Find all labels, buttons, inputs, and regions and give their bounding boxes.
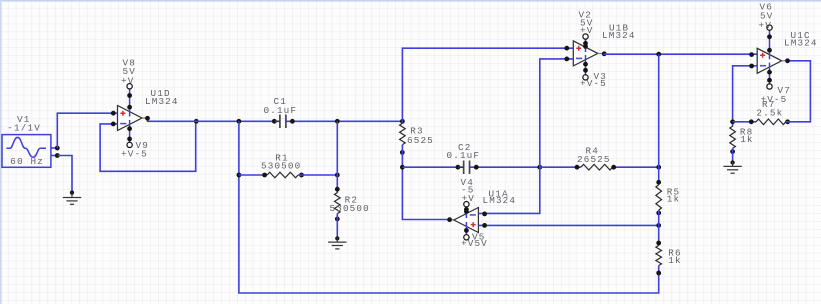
svg-text:530500: 530500 (261, 161, 301, 172)
label -5 (V4) (461, 184, 474, 195)
svg-text:LM324: LM324 (602, 30, 636, 41)
wire C1 wire down to R2 (336, 121, 338, 193)
node R6 bottom (656, 271, 661, 276)
node U1A pin 11 (464, 228, 469, 233)
node U1D pin 1 (145, 116, 150, 121)
power terminal +V (V2) (583, 34, 588, 39)
op-amp U1B (573, 41, 598, 66)
voltage source V1 (-1/1V 60 Hz sine source) (2, 135, 51, 168)
wire U1D feedback loop (100, 121, 196, 171)
svg-text:2.5k: 2.5k (756, 108, 783, 119)
value label 1k (R8) (740, 134, 753, 145)
value label 0.1uF (C2) (447, 150, 481, 161)
label 5V (V6) (760, 11, 773, 22)
node ground junction under R2 (335, 236, 339, 240)
label +V (V4) (462, 193, 475, 204)
node U1C pin 1 (785, 58, 790, 63)
node U1A pin 6 (482, 212, 487, 217)
wire U1B non-inverting input long run (402, 48, 573, 121)
node ground junction under V1 (70, 191, 74, 195)
U1B minus input mark (576, 57, 582, 59)
svg-text:+V: +V (580, 25, 593, 36)
node U1A pin 7 output (447, 217, 452, 222)
svg-text:0.1uF: 0.1uF (447, 150, 481, 161)
node U1D pin 11a (127, 126, 132, 131)
wire U1A V- pin (465, 222, 467, 234)
value label 6525 (R3) (407, 135, 434, 146)
U1A minus input mark (470, 214, 476, 216)
node R2 bottom lead (335, 217, 340, 222)
node U1C pin 11b (767, 78, 772, 83)
label V1 (17, 114, 30, 125)
label +V-5 (V7) (761, 94, 788, 105)
wire R5 to R6 (658, 210, 660, 245)
node C1 left lead (272, 119, 277, 124)
wire V1 minus lead (51, 155, 57, 157)
label V4 (461, 177, 474, 188)
value label 530500 (R1) (261, 161, 301, 172)
label R3 (410, 126, 423, 137)
wire U1A inverting input from C2 junction (478, 167, 539, 213)
label V6 (760, 2, 773, 13)
node junction U1B output / R4 branch (656, 52, 661, 57)
node U1A pin 4b (464, 209, 469, 214)
wire C2 left lead (402, 166, 463, 168)
node ground junction under R8 (730, 160, 734, 164)
wire U1A V+ pin (465, 207, 467, 218)
svg-text:LM324: LM324 (784, 38, 818, 49)
node R1 lead left (262, 173, 267, 178)
label C1 (274, 96, 287, 107)
node R1 lead right (299, 173, 304, 178)
svg-text:+V: +V (462, 193, 475, 204)
label R1 (275, 152, 288, 163)
op-amp U1C (757, 48, 782, 73)
wire R1 branch down and bottom return to R6 (239, 121, 659, 293)
wire C1 right to R3 junction (286, 120, 403, 122)
node R7 lead left (749, 119, 754, 124)
label LM324 (U1B) (602, 30, 636, 41)
wire R4 right lead (613, 166, 659, 168)
wire U1B V+ pin (585, 39, 587, 52)
U1D plus input mark (120, 111, 125, 116)
node R5 bottom lead (656, 211, 661, 216)
node junction C2/R4 (537, 165, 542, 170)
node U1A pin 5 (482, 223, 487, 228)
label R5 (667, 186, 680, 197)
value label 1k (R6) (668, 255, 681, 266)
node U1C pin 11a (767, 70, 772, 75)
node V1 plus terminal (55, 146, 60, 151)
resistor R4 (581, 164, 613, 170)
resistor R6 (656, 246, 662, 266)
wire U1A non-inverting input to R5 junction (478, 224, 658, 226)
node R2 top lead (335, 187, 340, 192)
wire U1D output to C1 (147, 120, 280, 122)
wire C2 right lead (470, 166, 540, 168)
label V2 (579, 10, 592, 21)
node C1 right lead (290, 119, 295, 124)
node U1D pin 2 (111, 122, 116, 127)
node U1D pin 4a (127, 93, 132, 98)
node U1C pin 2 (749, 64, 754, 69)
svg-text:0.1uF: 0.1uF (264, 105, 298, 116)
U1D output pin stub (142, 117, 147, 119)
wire R7 left lead (733, 121, 756, 123)
node U1D pin 4b (127, 105, 132, 110)
label V9 (136, 140, 149, 151)
power terminal V9 (127, 142, 132, 147)
wire U1C V- pin (769, 63, 771, 84)
resistor R7 (756, 119, 786, 125)
label LM324 (U1D) (145, 96, 179, 107)
node U1C pin 3 (749, 52, 754, 57)
node junction to R1 branch (237, 119, 242, 124)
wire R6 bottom lead (658, 266, 660, 274)
label +V-5 (V3) (580, 78, 607, 89)
node junction R3/C2 (400, 165, 405, 170)
svg-text:1k: 1k (667, 193, 680, 204)
node feedback junction (194, 119, 199, 124)
resistor R2 (335, 193, 341, 214)
svg-text:LM324: LM324 (483, 195, 517, 206)
label +V (V8) (121, 75, 134, 86)
node R5 top lead (656, 180, 661, 185)
wire U1B V- pin (585, 55, 587, 75)
node U1D pin 3 (111, 111, 116, 116)
label +V (V2) (580, 25, 593, 36)
svg-text:60 Hz: 60 Hz (10, 156, 44, 167)
label R6 (668, 248, 681, 259)
node U1C pin 4b (767, 48, 772, 53)
node R7 lead right (785, 119, 790, 124)
U1A output pin stub (450, 219, 454, 221)
op-amp U1A (454, 208, 479, 233)
node R6 top lead (656, 241, 661, 246)
label +V-5 (V9) (121, 148, 148, 159)
svg-text:26525: 26525 (577, 154, 611, 165)
wire R4 left lead (540, 166, 581, 168)
wire R8 to ground (732, 148, 734, 162)
node R1 right junction (335, 173, 340, 178)
svg-text:+V5V: +V5V (461, 238, 488, 249)
ground GND2 (328, 237, 346, 249)
resistor R1 (267, 172, 298, 178)
svg-text:1k: 1k (668, 255, 681, 266)
value label 530500 (R2) (330, 203, 370, 214)
value label 0.1uF (C1) (264, 105, 298, 116)
value label -1/1V (7, 123, 41, 134)
svg-text:+V: +V (121, 75, 134, 86)
wire U1B output to U1C non-inverting input (604, 53, 758, 55)
wire R2 to ground (336, 214, 338, 239)
node U1B pin 10 (564, 46, 569, 51)
U1B output pin stub (598, 52, 602, 54)
power terminal V5 (464, 235, 469, 240)
node R4 lead right (611, 165, 616, 170)
node U1B pin 9 (564, 57, 569, 62)
node U1B pin 11a (583, 62, 588, 67)
node junction at R2 branch (335, 119, 340, 124)
U1C output pin stub (782, 60, 785, 62)
ground GND3 (723, 162, 741, 174)
wire R7 right to U1C output (786, 61, 811, 122)
label R7 (762, 99, 775, 110)
label LM324 (U1A) (483, 195, 517, 206)
node U1B pin 4b (583, 44, 588, 49)
U1C minus input mark (760, 65, 766, 67)
value label 2.5k (R7) (756, 108, 783, 119)
resistor R5 (656, 185, 662, 210)
node V1 minus terminal (55, 153, 60, 158)
node C2 left lead (456, 165, 461, 170)
label V5 (472, 231, 485, 242)
svg-text:-1/1V: -1/1V (7, 123, 41, 134)
U1B plus input mark (576, 46, 581, 51)
wire U1C V+ pin (769, 31, 771, 60)
wire V1 plus to U1D non-inverting input (57, 113, 117, 148)
wire U1D V+ pin (129, 89, 131, 116)
node U1C pin 4a (767, 34, 772, 39)
label V3 (594, 71, 607, 82)
label C2 (458, 142, 471, 153)
wire R3 to C2 junction and U1A output (402, 145, 450, 220)
U1A plus input mark (471, 222, 476, 227)
svg-text:1k: 1k (740, 134, 753, 145)
resistor R8 (730, 126, 736, 148)
power terminal +V (V8) (127, 84, 132, 89)
node U1B pin 8 (602, 51, 607, 56)
node R4 lead left (575, 165, 580, 170)
node C2 right lead (474, 165, 479, 170)
U1D minus input mark (120, 123, 126, 125)
node R8 bottom lead (730, 149, 735, 154)
node U1B pin 11b (583, 68, 588, 73)
capacitor C1 (274, 115, 292, 129)
wire V1 minus to ground (57, 156, 72, 193)
wire R1 right lead (298, 174, 337, 176)
value label 26525 (R4) (577, 154, 611, 165)
svg-text:6525: 6525 (407, 135, 434, 146)
value label 60 Hz (10, 156, 44, 167)
svg-text:+V: +V (759, 20, 772, 31)
label U1C (791, 30, 811, 41)
svg-text:LM324: LM324 (145, 96, 179, 107)
wire R1 left lead (239, 174, 267, 176)
label U1D (151, 88, 171, 99)
node junction R5/R6 (656, 223, 661, 228)
capacitor C2 (458, 160, 476, 174)
label +V5V (V5) (461, 238, 488, 249)
wire U1C inverting input to R7/R8 node (733, 66, 758, 126)
label R4 (586, 146, 599, 157)
label LM324 (U1C) (784, 38, 818, 49)
resistor R3 (400, 123, 406, 144)
label +V (V6) (759, 20, 772, 31)
power terminal V7 (767, 84, 772, 89)
label 5V (V8) (123, 66, 136, 77)
node U1B pin 4a (583, 41, 588, 46)
op-amp U1D (118, 106, 143, 131)
label U1B (609, 22, 629, 33)
svg-text:530500: 530500 (330, 203, 370, 214)
power terminal V3 (583, 75, 588, 80)
label 5V (V2) (580, 18, 593, 29)
label U1A (489, 188, 509, 199)
label R8 (740, 127, 753, 138)
node R3 bottom lead (400, 150, 405, 155)
svg-text:+V-5: +V-5 (121, 148, 148, 159)
node U1A pin 4a (464, 207, 469, 212)
U1C plus input mark (760, 53, 765, 58)
node R1 left junction (237, 173, 242, 178)
wire V1 plus lead (51, 147, 57, 149)
value label 1k (R5) (667, 193, 680, 204)
node R4 right junction (656, 165, 661, 170)
wire U1B output branch down to R5 (658, 54, 660, 185)
ground GND1 (63, 193, 81, 205)
label V8 (123, 57, 136, 68)
power terminal +V (V6) (767, 25, 772, 30)
label R2 (345, 195, 358, 206)
node R7/R8 junction (730, 119, 735, 124)
wire U1D V- pin (129, 120, 131, 142)
wire U1B inverting input from C2 junction (540, 59, 574, 167)
svg-text:+V-5: +V-5 (580, 78, 607, 89)
power terminal +V (V4) (464, 202, 469, 207)
node U1D pin 11b (127, 137, 132, 142)
label V7 (778, 85, 791, 96)
node junction at R3 top (400, 119, 405, 124)
wire R3 top lead (401, 121, 403, 123)
